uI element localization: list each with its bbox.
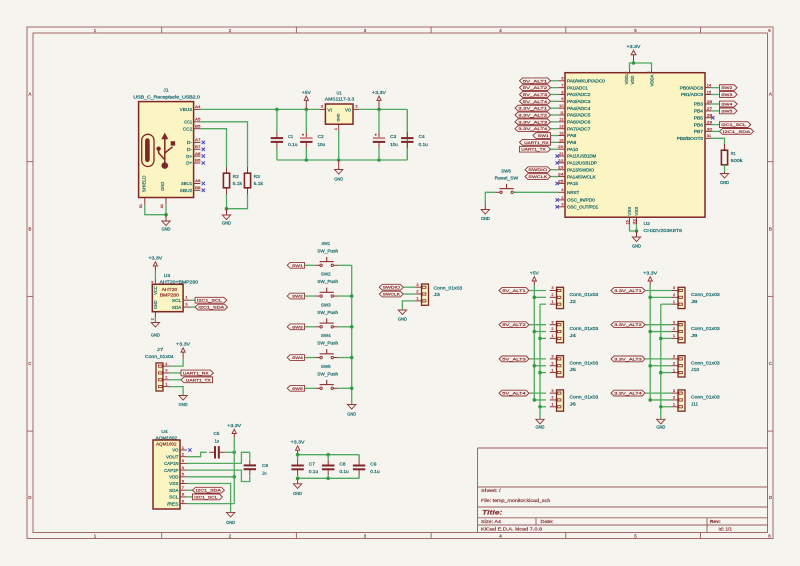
svg-text:3.3V_ALT4: 3.3V_ALT4 — [614, 391, 643, 396]
svg-text:GND: GND — [632, 244, 641, 249]
svg-text:A7: A7 — [195, 137, 200, 142]
svg-text:J9: J9 — [691, 333, 698, 338]
svg-text:C7: C7 — [309, 461, 316, 466]
svg-text:/RES: /RES — [167, 501, 178, 506]
svg-text:3.3V_ALT3: 3.3V_ALT3 — [614, 356, 641, 361]
svg-text:5: 5 — [646, 72, 651, 74]
svg-text:Conn_01x03: Conn_01x03 — [570, 360, 599, 365]
svg-text:SWDIO: SWDIO — [383, 285, 400, 290]
svg-text:3: 3 — [673, 285, 675, 290]
svg-text:SHIELD: SHIELD — [142, 175, 147, 192]
svg-text:2: 2 — [673, 292, 675, 297]
svg-text:SW5: SW5 — [721, 108, 732, 113]
svg-text:PA6/ADC6: PA6/ADC6 — [567, 120, 591, 125]
svg-text:I2C1_SDA: I2C1_SDA — [196, 488, 222, 493]
svg-text:J4: J4 — [570, 333, 577, 338]
svg-text:SW5: SW5 — [321, 364, 331, 369]
svg-text:GND: GND — [481, 216, 490, 221]
svg-text:GND: GND — [293, 491, 302, 496]
svg-text:5V_ALT1: 5V_ALT1 — [502, 288, 525, 293]
svg-text:10u: 10u — [318, 142, 326, 147]
svg-text:1u: 1u — [262, 471, 267, 476]
svg-text:SW4: SW4 — [321, 333, 331, 338]
svg-text:SW2: SW2 — [292, 294, 303, 299]
svg-text:File: temp_monitor.kicad_sch: File: temp_monitor.kicad_sch — [481, 498, 551, 503]
svg-text:VDD: VDD — [624, 76, 629, 85]
svg-text:+3.3V: +3.3V — [291, 440, 305, 445]
svg-text:SWCLK: SWCLK — [528, 174, 547, 179]
svg-text:AQM1602: AQM1602 — [156, 442, 177, 447]
svg-text:23: 23 — [558, 165, 563, 170]
svg-text:C: C — [28, 361, 31, 366]
svg-text:3.3V_ALT1: 3.3V_ALT1 — [614, 288, 641, 293]
svg-text:J8: J8 — [691, 299, 698, 304]
svg-text:5V_ALT2: 5V_ALT2 — [523, 85, 547, 90]
svg-text:GND: GND — [536, 425, 545, 430]
svg-text:10u: 10u — [390, 142, 398, 147]
svg-text:CC2: CC2 — [183, 126, 193, 131]
svg-text:VDD: VDD — [630, 76, 635, 85]
svg-text:C3: C3 — [390, 134, 397, 139]
svg-text:R1: R1 — [731, 151, 736, 156]
svg-text:1: 1 — [551, 299, 553, 304]
svg-text:9: 9 — [182, 498, 184, 503]
svg-text:UART1_RX: UART1_RX — [183, 370, 209, 375]
svg-text:0.1u: 0.1u — [309, 469, 319, 474]
svg-text:3.3V_ALT3: 3.3V_ALT3 — [518, 119, 547, 124]
svg-text:25: 25 — [558, 178, 563, 183]
svg-text:D: D — [28, 495, 31, 500]
svg-text:Conn_01x03: Conn_01x03 — [691, 292, 720, 297]
svg-text:PB0/ADC8: PB0/ADC8 — [680, 85, 704, 90]
svg-text:NRST: NRST — [567, 190, 580, 195]
svg-text:SW2: SW2 — [721, 85, 732, 90]
svg-text:PA15: PA15 — [567, 181, 579, 186]
svg-text:SW3: SW3 — [292, 324, 303, 329]
svg-text:B8: B8 — [195, 185, 200, 190]
svg-text:+3.3V: +3.3V — [148, 255, 162, 260]
svg-text:OSC_OUT/PD1: OSC_OUT/PD1 — [567, 205, 599, 210]
svg-text:PA2/ADC2: PA2/ADC2 — [567, 92, 591, 97]
svg-text:PB4: PB4 — [694, 109, 704, 114]
svg-text:3: 3 — [182, 458, 184, 463]
svg-text:CAP1N: CAP1N — [164, 461, 178, 466]
svg-text:2: 2 — [673, 395, 675, 400]
svg-text:SW1: SW1 — [322, 241, 331, 246]
svg-text:J3: J3 — [434, 292, 441, 297]
svg-text:Conn_01x03: Conn_01x03 — [691, 326, 720, 331]
svg-text:PB1/ADC9: PB1/ADC9 — [681, 92, 704, 97]
svg-text:SW_Push: SW_Push — [317, 310, 338, 315]
svg-text:2: 2 — [355, 103, 357, 108]
svg-text:3: 3 — [551, 388, 553, 393]
svg-text:GND: GND — [398, 317, 407, 322]
svg-text:U3: U3 — [164, 273, 171, 278]
svg-text:3: 3 — [673, 354, 675, 359]
svg-text:3.3V_ALT2: 3.3V_ALT2 — [614, 322, 641, 327]
svg-text:PB8/BOOT0: PB8/BOOT0 — [677, 136, 704, 141]
svg-text:SBU2: SBU2 — [180, 188, 193, 193]
svg-text:PA1/ADC1: PA1/ADC1 — [567, 85, 589, 90]
svg-text:Conn_01x03: Conn_01x03 — [434, 285, 463, 290]
svg-text:VDD: VDD — [169, 475, 179, 480]
svg-text:C1: C1 — [288, 134, 293, 139]
svg-text:U4: U4 — [161, 429, 168, 434]
svg-text:19: 19 — [559, 137, 563, 142]
svg-text:2: 2 — [150, 318, 155, 320]
svg-text:AMS1117-3.3: AMS1117-3.3 — [325, 97, 355, 102]
svg-text:GND: GND — [337, 113, 341, 121]
svg-text:PA9: PA9 — [567, 140, 577, 145]
svg-text:GND: GND — [334, 177, 343, 182]
svg-text:BMP280: BMP280 — [160, 292, 180, 297]
svg-text:16: 16 — [624, 220, 629, 224]
svg-text:1: 1 — [182, 445, 184, 450]
svg-text:2: 2 — [165, 374, 167, 379]
svg-text:2: 2 — [551, 326, 553, 331]
svg-text:VI: VI — [327, 108, 332, 113]
svg-text:+3.3V: +3.3V — [227, 423, 241, 428]
svg-text:C8: C8 — [339, 461, 346, 466]
svg-text:D+: D+ — [186, 161, 192, 166]
svg-text:R3: R3 — [254, 174, 261, 179]
svg-text:32: 32 — [631, 219, 636, 224]
svg-text:PA5/ADC5: PA5/ADC5 — [567, 113, 591, 118]
svg-text:5V_ALT1: 5V_ALT1 — [523, 78, 547, 83]
svg-text:SW2: SW2 — [321, 272, 331, 277]
svg-text:GND: GND — [162, 227, 171, 232]
svg-text:VSS: VSS — [634, 207, 639, 216]
svg-text:I2C1_SDA: I2C1_SDA — [198, 305, 224, 310]
svg-text:Conn_01x03: Conn_01x03 — [691, 360, 720, 365]
svg-text:A8: A8 — [195, 178, 200, 183]
svg-text:27: 27 — [707, 106, 712, 111]
svg-text:J10: J10 — [691, 367, 700, 372]
svg-text:SBU1: SBU1 — [181, 181, 193, 186]
svg-text:15: 15 — [707, 89, 711, 94]
svg-text:A: A — [28, 92, 31, 97]
svg-text:1: 1 — [165, 381, 167, 386]
svg-text:Conn_01x03: Conn_01x03 — [570, 326, 599, 331]
svg-text:Title:: Title: — [482, 510, 502, 517]
svg-text:0.1u: 0.1u — [339, 469, 349, 474]
svg-text:D+: D+ — [186, 154, 192, 159]
svg-text:U1: U1 — [336, 90, 341, 95]
svg-text:1: 1 — [185, 295, 187, 300]
svg-text:PA13/SWDIO: PA13/SWDIO — [567, 167, 595, 172]
svg-text:11: 11 — [560, 110, 563, 115]
svg-text:3.3V_ALT4: 3.3V_ALT4 — [518, 126, 548, 131]
svg-text:Conn_01x04: Conn_01x04 — [145, 354, 174, 359]
svg-text:26: 26 — [707, 99, 712, 104]
svg-text:GND: GND — [720, 180, 729, 185]
svg-text:500k: 500k — [731, 158, 744, 163]
svg-text:1: 1 — [551, 401, 553, 406]
svg-text:5.1k: 5.1k — [254, 181, 264, 186]
svg-text:C: C — [769, 361, 772, 366]
svg-text:2: 2 — [551, 292, 553, 297]
svg-text:J2: J2 — [570, 299, 577, 304]
svg-text:J7: J7 — [157, 347, 164, 352]
svg-text:31: 31 — [707, 133, 711, 138]
svg-text:PA8: PA8 — [567, 133, 577, 138]
svg-text:C9: C9 — [370, 461, 377, 466]
svg-text:SW_Push: SW_Push — [317, 279, 338, 284]
svg-text:C5: C5 — [213, 431, 220, 436]
svg-text:VOUT: VOUT — [166, 454, 179, 459]
svg-text:GND: GND — [179, 402, 188, 407]
svg-text:VDDA: VDDA — [650, 74, 655, 86]
svg-text:1u: 1u — [215, 438, 220, 443]
svg-text:2: 2 — [416, 289, 418, 294]
svg-text:SWCLK: SWCLK — [383, 292, 401, 297]
svg-text:3: 3 — [165, 368, 167, 373]
svg-text:PA7/ADC7: PA7/ADC7 — [567, 126, 591, 131]
svg-text:5V_ALT2: 5V_ALT2 — [502, 322, 525, 327]
svg-text:+5V: +5V — [530, 270, 539, 275]
svg-text:3: 3 — [561, 202, 563, 207]
svg-text:1: 1 — [333, 128, 338, 130]
svg-text:3.3V_ALT2: 3.3V_ALT2 — [518, 113, 547, 118]
svg-text:R2: R2 — [233, 174, 240, 179]
svg-text:GND: GND — [347, 412, 356, 417]
svg-text:VSS: VSS — [627, 207, 632, 216]
svg-text:3: 3 — [416, 282, 418, 287]
svg-text:SCL: SCL — [169, 495, 179, 500]
svg-text:Size: A4: Size: A4 — [481, 519, 502, 524]
svg-text:2: 2 — [551, 395, 553, 400]
svg-text:U2: U2 — [644, 221, 651, 226]
svg-text:SDA: SDA — [169, 488, 178, 493]
svg-text:PA4/ADC4: PA4/ADC4 — [567, 106, 591, 111]
svg-text:J5: J5 — [570, 367, 577, 372]
svg-text:C2: C2 — [318, 134, 325, 139]
svg-text:GND: GND — [226, 520, 235, 525]
svg-text:7: 7 — [561, 83, 563, 88]
svg-text:5V_ALT4: 5V_ALT4 — [502, 391, 527, 396]
svg-text:D: D — [769, 495, 772, 500]
svg-text:22: 22 — [558, 158, 563, 163]
svg-text:+3.3V: +3.3V — [176, 342, 190, 347]
svg-text:I2C1_SCL: I2C1_SCL — [194, 494, 218, 499]
svg-text:B6: B6 — [195, 158, 200, 163]
svg-text:1: 1 — [673, 333, 675, 338]
svg-text:SW4: SW4 — [721, 102, 733, 107]
svg-text:2: 2 — [551, 360, 553, 365]
svg-text:3: 3 — [673, 388, 675, 393]
svg-text:VCC: VCC — [153, 286, 158, 295]
svg-text:CH32V203K8T6: CH32V203K8T6 — [644, 228, 683, 233]
svg-text:CC1: CC1 — [184, 120, 193, 125]
svg-text:7: 7 — [182, 485, 184, 490]
svg-text:8: 8 — [182, 492, 184, 497]
svg-text:+3.3V: +3.3V — [643, 270, 657, 275]
svg-text:SCL: SCL — [172, 298, 182, 303]
svg-text:8: 8 — [561, 89, 563, 94]
svg-text:B5: B5 — [195, 123, 200, 128]
svg-text:+3.3V: +3.3V — [627, 44, 641, 49]
svg-text:9: 9 — [561, 96, 563, 101]
svg-text:A4: A4 — [195, 104, 201, 109]
svg-text:AHT20: AHT20 — [162, 287, 178, 292]
svg-text:1: 1 — [416, 296, 418, 301]
svg-text:SW_Push: SW_Push — [317, 248, 338, 253]
svg-text:6: 6 — [182, 478, 184, 483]
svg-text:0.1u: 0.1u — [370, 469, 380, 474]
svg-text:J11: J11 — [691, 401, 698, 406]
svg-text:CAP1P: CAP1P — [164, 468, 178, 473]
svg-text:SW6: SW6 — [501, 169, 511, 174]
svg-text:SDA: SDA — [172, 305, 181, 310]
svg-text:5V_ALT3: 5V_ALT3 — [523, 92, 547, 97]
svg-text:A5: A5 — [195, 117, 200, 122]
svg-text:Sheet: /: Sheet: / — [481, 488, 502, 493]
svg-text:B: B — [28, 227, 31, 232]
svg-text:A: A — [769, 92, 772, 97]
svg-text:GND: GND — [153, 300, 158, 309]
svg-text:Conn_01x03: Conn_01x03 — [691, 395, 720, 400]
svg-text:VSS: VSS — [169, 481, 178, 486]
svg-text:I2C1_SCL: I2C1_SCL — [721, 122, 747, 127]
svg-text:3: 3 — [185, 301, 187, 306]
svg-text:3: 3 — [673, 319, 675, 324]
svg-text:0.1u: 0.1u — [419, 142, 429, 147]
svg-text:S1: S1 — [138, 204, 143, 208]
svg-text:Conn_01x03: Conn_01x03 — [570, 292, 599, 297]
svg-text:GND: GND — [160, 182, 165, 191]
svg-text:2: 2 — [561, 195, 563, 200]
svg-text:Date:: Date: — [541, 519, 554, 524]
svg-text:1: 1 — [673, 299, 675, 304]
svg-text:VO: VO — [172, 448, 179, 453]
svg-text:Conn_01x03: Conn_01x03 — [570, 395, 599, 400]
svg-text:UART1_TX: UART1_TX — [521, 147, 546, 152]
svg-text:17: 17 — [624, 72, 629, 76]
svg-text:3: 3 — [551, 354, 553, 359]
svg-text:29: 29 — [707, 120, 712, 125]
svg-text:PB5: PB5 — [694, 115, 704, 120]
svg-text:0.1u: 0.1u — [288, 142, 298, 147]
svg-text:PB7: PB7 — [694, 129, 704, 134]
svg-text:5: 5 — [182, 472, 184, 477]
svg-text:13: 13 — [559, 124, 563, 129]
svg-text:5.1k: 5.1k — [233, 181, 243, 186]
svg-text:PA14/SWCLK: PA14/SWCLK — [567, 174, 596, 179]
svg-text:SW3: SW3 — [321, 302, 331, 307]
svg-text:I2C1_SDA: I2C1_SDA — [723, 129, 751, 134]
svg-text:SW5: SW5 — [292, 386, 303, 391]
svg-text:PB6: PB6 — [694, 122, 704, 127]
svg-text:5V_ALT3: 5V_ALT3 — [502, 356, 525, 361]
svg-text:Rev:: Rev: — [710, 519, 721, 524]
svg-text:2: 2 — [182, 452, 184, 457]
svg-text:D-: D- — [187, 140, 193, 145]
svg-text:3: 3 — [321, 103, 323, 108]
svg-text:+5V: +5V — [302, 90, 311, 95]
svg-text:PB3: PB3 — [694, 102, 704, 107]
svg-text:J1: J1 — [163, 88, 169, 93]
svg-text:5V_ALT4: 5V_ALT4 — [523, 99, 549, 104]
svg-text:2: 2 — [673, 326, 675, 331]
svg-text:+3.3V: +3.3V — [372, 90, 386, 95]
svg-text:VBUS: VBUS — [180, 107, 193, 112]
svg-text:GND: GND — [656, 425, 665, 430]
svg-text:6: 6 — [561, 76, 563, 81]
svg-text:SW1: SW1 — [292, 263, 303, 268]
svg-text:AHT20+BMP280: AHT20+BMP280 — [160, 279, 199, 284]
svg-text:PA10: PA10 — [567, 147, 579, 152]
svg-text:B7: B7 — [195, 144, 200, 149]
svg-text:SW3: SW3 — [721, 92, 732, 97]
svg-text:A6: A6 — [195, 151, 200, 156]
svg-text:12: 12 — [559, 117, 563, 122]
svg-text:UART1_RX: UART1_RX — [524, 140, 549, 145]
svg-text:J6: J6 — [570, 401, 577, 406]
svg-text:A1: A1 — [159, 204, 164, 208]
svg-text:UART1_TX: UART1_TX — [186, 377, 211, 382]
svg-text:2: 2 — [673, 360, 675, 365]
svg-text:PA3/ADC3: PA3/ADC3 — [567, 99, 591, 104]
svg-text:I2C1_SCL: I2C1_SCL — [197, 298, 223, 303]
svg-text:SWDIO: SWDIO — [528, 167, 547, 172]
svg-text:PA0/WKUP/ADC0: PA0/WKUP/ADC0 — [567, 79, 606, 84]
svg-text:1: 1 — [551, 367, 553, 372]
svg-text:Reset_SW: Reset_SW — [495, 175, 519, 180]
svg-text:GND: GND — [222, 221, 231, 226]
svg-text:Id: 1/1: Id: 1/1 — [719, 527, 733, 532]
svg-text:1: 1 — [551, 333, 553, 338]
svg-text:3: 3 — [551, 285, 553, 290]
svg-text:1: 1 — [673, 367, 675, 372]
svg-text:SW_Push: SW_Push — [317, 371, 338, 376]
svg-text:PA12/USB1DP: PA12/USB1DP — [567, 161, 597, 166]
svg-text:3: 3 — [551, 319, 553, 324]
svg-text:SW1: SW1 — [538, 133, 549, 138]
svg-text:SW4: SW4 — [292, 355, 304, 360]
svg-text:21: 21 — [559, 151, 563, 156]
svg-text:SW_Push: SW_Push — [317, 341, 338, 346]
svg-text:3.3V_ALT1: 3.3V_ALT1 — [518, 106, 547, 111]
svg-text:18: 18 — [559, 130, 563, 135]
svg-text:GND: GND — [151, 333, 160, 338]
svg-text:PA11/USB1DM: PA11/USB1DM — [567, 154, 597, 159]
svg-text:D-: D- — [187, 147, 193, 152]
svg-text:KiCad E.D.A. kicad 7.0.8: KiCad E.D.A. kicad 7.0.8 — [481, 527, 543, 532]
svg-text:C4: C4 — [419, 134, 426, 139]
svg-text:USB_C_Receptacle_USB2.0: USB_C_Receptacle_USB2.0 — [133, 95, 200, 100]
svg-text:C6: C6 — [262, 463, 269, 468]
svg-text:VO: VO — [345, 108, 352, 113]
svg-text:B: B — [769, 227, 772, 232]
svg-text:OSC_IN/PD0: OSC_IN/PD0 — [567, 198, 595, 203]
svg-text:1: 1 — [673, 401, 675, 406]
